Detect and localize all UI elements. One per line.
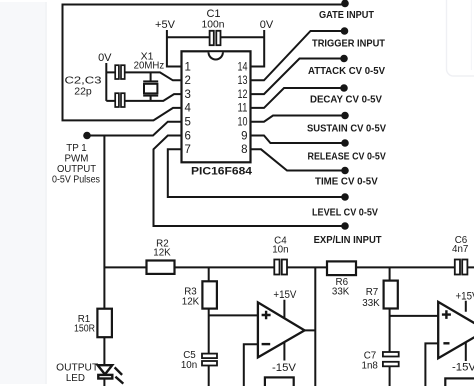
node LEVEL dot [341, 193, 349, 201]
wire main bus [104, 266, 474, 268]
svg-text:1n8: 1n8 [362, 360, 379, 371]
svg-text:LED: LED [66, 373, 85, 384]
node SUSTAIN dot [341, 112, 349, 120]
wire opamp2 feedback [425, 343, 438, 386]
svg-text:TP 1: TP 1 [66, 143, 87, 154]
node DECAY dot [340, 84, 348, 92]
svg-text:12: 12 [238, 89, 248, 101]
svg-text:ATTACK CV 0-5V: ATTACK CV 0-5V [308, 65, 385, 77]
wire C3 to pin 3 [106, 94, 181, 101]
svg-text:LEVEL CV 0-5V: LEVEL CV 0-5V [312, 206, 378, 218]
resistor R6 [327, 261, 356, 275]
svg-text:2: 2 [185, 75, 191, 87]
svg-text:EXP/LIN INPUT: EXP/LIN INPUT [314, 234, 383, 246]
diode LED D1 [98, 365, 113, 378]
node TRIGGER dot [341, 27, 349, 35]
svg-text:R7: R7 [366, 287, 379, 298]
svg-text:10n: 10n [181, 360, 197, 371]
opamp1 plus sign [262, 311, 271, 320]
node TP1 dot [83, 132, 91, 140]
svg-text:TIME CV 0-5V: TIME CV 0-5V [315, 176, 378, 188]
wire R3 to C5 [208, 309, 210, 386]
resistor R2 [147, 261, 175, 274]
svg-text:RELEASE CV 0-5V: RELEASE CV 0-5V [308, 151, 386, 163]
wire pin 11 to DECAY terminal [251, 88, 342, 108]
svg-text:33K: 33K [362, 298, 380, 309]
op-amp U3 (clipped) [438, 302, 474, 358]
node TIME dot [341, 167, 349, 175]
svg-text:5: 5 [185, 117, 191, 129]
node EXP/LIN dot [341, 222, 349, 230]
svg-text:-15V: -15V [272, 362, 297, 374]
capacitor C5 [202, 354, 217, 366]
wire C2 to pin 2 [106, 72, 181, 80]
opamp2 plus sign [442, 310, 451, 319]
sidebar strip [0, 2, 47, 384]
svg-text:4n7: 4n7 [452, 244, 468, 255]
resistor R1 [97, 309, 112, 338]
wire pin 6 to EXP/LIN terminal [154, 136, 343, 227]
svg-text:1: 1 [185, 61, 191, 73]
svg-text:10n: 10n [272, 244, 288, 255]
resistor R5 (clipped) [445, 378, 474, 386]
wire pin 8 to TIME terminal [251, 149, 343, 170]
svg-text:+15V: +15V [273, 289, 297, 301]
wire TP1 to pin 5 [87, 122, 182, 136]
svg-text:10: 10 [238, 117, 248, 129]
wire pin 12 to ATTACK terminal [251, 59, 342, 95]
wire 0V stub to C2 C3 [105, 63, 107, 101]
svg-text:0V: 0V [260, 19, 274, 31]
IC U1 PIC16F684 [182, 51, 251, 162]
svg-text:20MHz: 20MHz [134, 60, 165, 72]
wire opamp1 feedback [244, 344, 258, 386]
svg-text:12K: 12K [182, 297, 200, 308]
svg-text:0-5V Pulses: 0-5V Pulses [52, 175, 100, 186]
BOTTOM SECTION [104, 267, 474, 386]
svg-text:8: 8 [241, 144, 247, 156]
resistor R3 [202, 281, 217, 308]
svg-text:PIC16F684: PIC16F684 [191, 166, 253, 178]
op-amp U2 [258, 302, 305, 357]
svg-text:+15V: +15V [456, 290, 474, 302]
capacitor C2 [115, 65, 125, 79]
wire opamp1 supplies [283, 300, 285, 361]
wire opamp2 supplies [465, 301, 467, 361]
node RELEASE dot [341, 139, 349, 147]
wire pin 7 to LEVEL terminal [168, 149, 342, 197]
svg-text:12K: 12K [153, 248, 171, 259]
wire R7 junction drop [389, 267, 391, 280]
wire R3 junction drop [208, 267, 210, 281]
opamp2 minus sign [443, 342, 449, 344]
svg-text:-15V: -15V [452, 361, 474, 373]
svg-text:100n: 100n [202, 19, 225, 31]
resistor R4 (clipped) [265, 377, 294, 386]
svg-text:3: 3 [185, 89, 191, 101]
node ATTACK dot [340, 55, 348, 63]
capacitor C1 [210, 31, 221, 45]
svg-text:11: 11 [238, 103, 248, 115]
svg-text:GATE INPUT: GATE INPUT [319, 9, 375, 21]
svg-text:13: 13 [238, 75, 248, 87]
LED arrows [115, 367, 124, 383]
svg-text:DECAY CV 0-5V: DECAY CV 0-5V [310, 94, 382, 106]
svg-text:22p: 22p [74, 86, 92, 98]
capacitor C7 [383, 352, 399, 366]
wire C1 to 0V [220, 30, 264, 67]
svg-text:OUTPUT: OUTPUT [57, 164, 96, 175]
svg-text:9: 9 [241, 130, 247, 142]
crystal X1 [143, 81, 158, 95]
svg-text:150R: 150R [74, 324, 95, 335]
top-right card [447, 0, 474, 76]
wire R1 to LED [103, 337, 105, 386]
opamp1 minus sign [262, 343, 271, 345]
wire pin 13 to TRIGGER terminal [251, 31, 342, 80]
wire opamp2 plus input [390, 315, 439, 317]
capacitor C3 [115, 93, 125, 107]
svg-text:+5V: +5V [155, 19, 176, 31]
svg-text:6: 6 [185, 130, 191, 142]
svg-text:SUSTAIN CV 0-5V: SUSTAIN CV 0-5V [307, 122, 386, 134]
wire TP1 vertical to output stage [103, 136, 105, 309]
wire opamp1 output [305, 267, 316, 386]
svg-text:TRIGGER INPUT: TRIGGER INPUT [312, 38, 386, 50]
svg-text:33K: 33K [332, 287, 350, 298]
wire pin 10 to SUSTAIN terminal [251, 116, 343, 122]
svg-text:7: 7 [185, 144, 191, 156]
wire crystal X1 leads [150, 72, 152, 101]
wire gate loop from pin4 [63, 5, 343, 121]
capacitor C6 [455, 260, 468, 275]
capacitor C4 [274, 260, 287, 275]
resistor R7 [384, 281, 398, 309]
wire R7 to C7 [389, 309, 391, 386]
wire opamp1 plus input [209, 314, 258, 316]
wire +5V rail to pin 1 [167, 30, 210, 67]
svg-text:4: 4 [185, 103, 192, 115]
wire pin 9 to RELEASE terminal [251, 136, 343, 144]
svg-text:PWM: PWM [65, 154, 89, 165]
node GATE dot [341, 0, 349, 7]
svg-text:14: 14 [238, 61, 248, 73]
svg-text:0V: 0V [98, 52, 112, 64]
